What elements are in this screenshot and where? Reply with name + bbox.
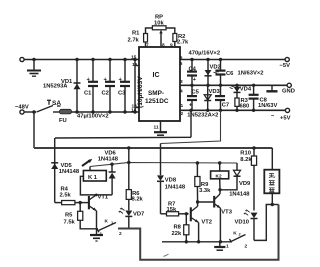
wire base VT3 [198,201,215,203]
svg-text:1N5293A: 1N5293A [43,84,68,90]
svg-text:VD4: VD4 [240,87,252,93]
svg-text:2.7k: 2.7k [128,38,140,44]
diode VD5 [51,138,80,203]
svg-text:15k: 15k [167,207,177,213]
svg-text:2.7k: 2.7k [177,40,189,46]
wire riser x219.5 (C7 column) from +5V rail [161,110,221,143]
svg-text:SA: SA [52,100,61,107]
resistor R5 [64,203,99,229]
svg-text:R9: R9 [201,182,209,188]
wire bottom stage rail [162,240,231,243]
wire VD10 bottom to buzzer lead [254,205,272,241]
svg-text:+5V: +5V [280,116,291,122]
resistor R8 [172,214,189,242]
resistor R10 [240,148,256,211]
svg-text:1N5232A×2: 1N5232A×2 [187,113,218,119]
wire VT3 emitter down [219,208,221,242]
switch SA [24,100,61,114]
terminal +5V [271,108,291,121]
diode VD4 [230,85,252,98]
svg-text:IC: IC [153,72,160,79]
switch K1 contact [97,219,122,238]
svg-text:C2: C2 [102,91,109,97]
svg-text:6: 6 [180,61,183,67]
svg-text:−5V: −5V [280,63,291,69]
buzzer box [264,148,279,206]
svg-text:8.2k: 8.2k [132,197,144,203]
svg-text:2: 2 [119,231,122,237]
svg-text:8.2k: 8.2k [240,157,252,163]
capacitor C3 [118,60,130,113]
svg-text:4: 4 [180,89,183,95]
svg-text:22k: 22k [172,231,182,237]
svg-text:9: 9 [170,43,173,49]
terminal -5V [280,57,291,69]
transistor VT3 [214,194,233,216]
svg-text:47µ/100V×2: 47µ/100V×2 [77,114,109,120]
svg-text:1: 1 [181,103,184,109]
svg-text:8: 8 [162,43,165,49]
wire -48V to lower section [33,112,35,148]
LED VD10 [235,210,258,241]
potentiometer RP [152,15,166,48]
svg-text:(10µH/63V: (10µH/63V [137,76,144,108]
node -48V input terminal [15,105,29,115]
svg-text:1N4148: 1N4148 [229,191,250,197]
stray mark [164,254,169,256]
terminal GND [282,83,295,94]
svg-text:−48V: −48V [15,105,29,111]
svg-text:VD7: VD7 [133,212,144,218]
svg-text:11: 11 [154,125,159,131]
svg-text:R8: R8 [174,224,182,230]
diode VD6 [98,151,119,195]
arrow relay K1 actuation [82,159,92,166]
svg-text:C6: C6 [226,71,234,77]
resistor R3 [235,98,249,110]
wire H2 second rail -48V [34,146,272,149]
svg-text:VT2: VT2 [201,220,212,226]
diode VD1 [43,60,81,113]
svg-text:7.5k: 7.5k [64,220,76,226]
svg-text:2: 2 [181,111,184,117]
capacitor C5 [187,85,200,110]
wire -5V rail [180,51,285,67]
resistor R2 [166,28,189,47]
svg-text:VD9: VD9 [239,181,251,187]
svg-text:1N4148: 1N4148 [59,169,80,175]
wire H1 top rail of lower section [55,136,191,139]
ground VT1 emitter [90,235,103,241]
svg-text:C7: C7 [222,103,229,109]
svg-text:K 1: K 1 [88,175,98,181]
resistor R9 [195,163,211,204]
svg-text:7: 7 [146,43,149,49]
capacitor C1 [84,60,98,113]
resistor R1 [128,28,153,47]
diode VD8 [157,144,186,214]
svg-text:1N/63V×2: 1N/63V×2 [238,71,264,77]
svg-text:C4: C4 [189,67,197,73]
IC U1 SMP-1251DC [131,43,180,122]
svg-text:3: 3 [180,79,183,85]
svg-text:C1: C1 [84,91,92,97]
diode VD9 [220,163,251,197]
terminal T1 top-left [20,57,24,61]
capacitor C4 [187,60,197,86]
svg-text:K: K [105,219,109,225]
diode VD2 [205,60,221,86]
svg-text:5: 5 [180,55,183,61]
svg-text:SMP-: SMP- [148,90,164,97]
svg-text:K2: K2 [216,174,222,180]
switch K2 contact [226,230,248,249]
svg-text:VD10: VD10 [235,220,250,226]
resistor R4 [55,187,89,205]
capacitor C2 [102,60,116,113]
svg-text:R10: R10 [240,151,251,157]
svg-text:1251DC: 1251DC [145,98,169,105]
ground top-left [27,60,41,77]
capacitor C6 [216,60,264,86]
wire K-rail relay rail [90,161,237,167]
transistor VT1 [89,195,109,211]
svg-text:C3: C3 [118,91,126,97]
resistor R6 [126,148,143,203]
svg-text:1N/63V: 1N/63V [258,103,277,109]
svg-text:2: 2 [245,243,248,249]
svg-text:C5: C5 [192,90,200,96]
svg-text:FU: FU [59,118,67,124]
svg-text:+: + [193,77,197,83]
svg-text:1N4148: 1N4148 [98,157,119,163]
ground IC pin 11 [154,121,168,135]
ground VT2 VT3 emitters [214,242,225,250]
wire +5V rail [180,103,285,119]
wire top-left rail [24,58,139,61]
relay coil K1 [80,167,112,197]
wire VT1 emitter to ground [96,211,98,235]
wire vertical x135 pin16-pin13 [134,60,136,113]
svg-text:3.3k: 3.3k [199,188,211,194]
svg-text:470µ/16V×2: 470µ/16V×2 [189,51,221,57]
capacitor C7 [215,85,229,110]
svg-text:10k: 10k [154,21,164,27]
svg-text:K: K [233,230,237,236]
wire K1 contact2 to bottom loop [118,205,279,260]
relay coil K2 [211,163,229,190]
svg-text:VD3: VD3 [209,89,221,95]
wire VT3 collector junction [218,188,221,194]
svg-text:GND: GND [282,89,295,95]
svg-text:1: 1 [100,232,103,238]
svg-text:R1: R1 [132,31,140,37]
svg-text:1: 1 [226,244,229,250]
fuse FU [53,109,72,124]
svg-text:VT3: VT3 [221,210,232,216]
svg-text:2.5k: 2.5k [60,193,72,199]
LED VD7 [118,199,144,228]
wire GND rail [180,79,287,95]
svg-text:680: 680 [240,104,250,110]
resistor R7 [161,202,189,216]
svg-text:VD8: VD8 [165,178,177,184]
diode VD3 [204,85,220,110]
wire VT2 emitter down [198,223,200,242]
svg-text:R5: R5 [65,213,73,219]
transistor VT2 [191,202,212,226]
ground chassis mark [266,85,277,91]
svg-text:15: 15 [131,55,137,61]
svg-text:1N4148: 1N4148 [165,184,186,190]
wire -48V rail [72,110,140,119]
label C3 value rotated [137,76,144,108]
capacitor C8 [249,85,278,110]
wire riser x191 from +5V rail [190,110,192,137]
